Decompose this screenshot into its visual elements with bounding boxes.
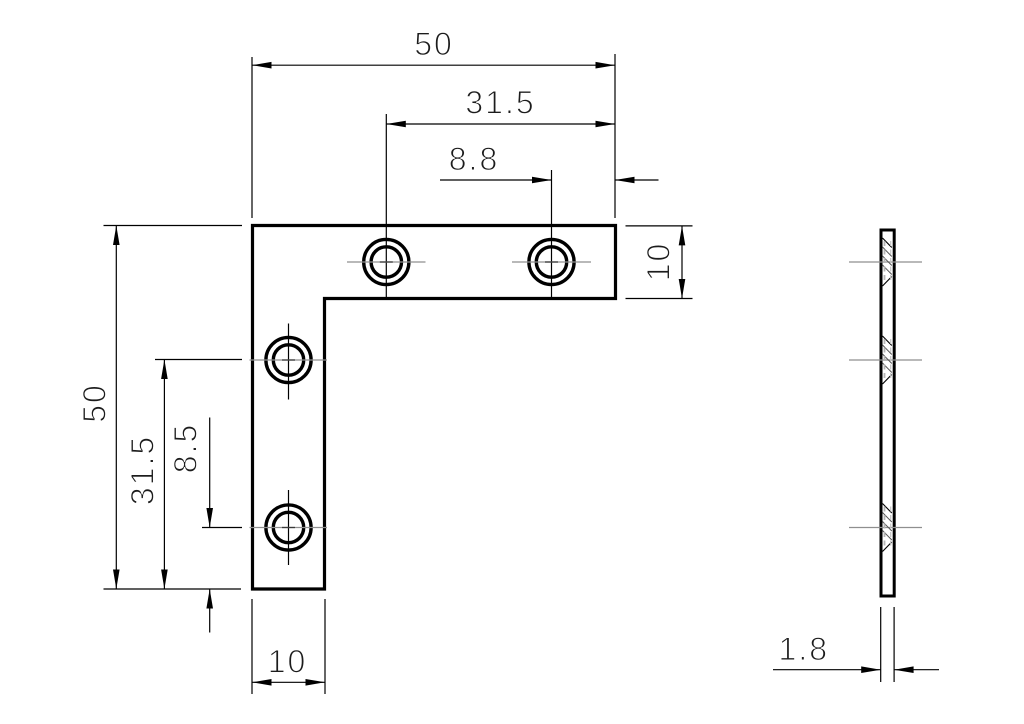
dimension 1.8: text label	[779, 631, 829, 667]
dimension 8.5: arrowhead pointing up at plate bottom	[206, 589, 213, 609]
dimension 1.8: dimension line left segment	[773, 669, 881, 671]
dimension 10 bottom: extension line right	[324, 599, 326, 694]
side view hidden hole edges at H1 (dashed)	[885, 241, 891, 283]
side view plate outline	[881, 230, 894, 596]
dimension 10 right: bottom arrowhead	[679, 279, 686, 299]
svg-text:10: 10	[641, 242, 677, 282]
dimension 50 left: bottom arrowhead	[113, 570, 120, 590]
hole H2 outer circle	[529, 239, 574, 284]
dimension 8.8: dimension line right tail	[615, 179, 659, 181]
dimension 50 top: text label	[414, 26, 454, 62]
hole H3 outer circle	[266, 337, 311, 382]
dimension 31.5 left: dimension line	[163, 360, 165, 590]
dimension 50 top: dimension line	[252, 64, 615, 66]
svg-text:31.5: 31.5	[125, 435, 161, 505]
dimension 50 top: right arrowhead	[596, 62, 616, 69]
hole H1 center mark dash	[380, 261, 393, 263]
hole H2 center mark dash	[545, 261, 558, 263]
dimension 50 left: dimension line	[115, 226, 117, 590]
dimension 31.5 left: bottom arrowhead	[161, 570, 168, 590]
dimension 31.5 left: text label (rotated)	[125, 435, 161, 505]
side view broken-out section at hole H3: boundary and hatch	[883, 336, 892, 384]
dimension 10 bottom: right arrowhead	[306, 679, 326, 686]
dimension 50 left: top arrowhead	[113, 226, 120, 246]
svg-text:8.5: 8.5	[168, 423, 204, 473]
dimension 50 left: extension line bottom (shared)	[104, 588, 242, 590]
dimension 50 top: left arrowhead	[252, 62, 272, 69]
dimension 10 right: top arrowhead	[679, 226, 686, 246]
hole H3 horizontal centerline	[250, 359, 328, 361]
dimension 10 bottom: text label	[268, 643, 308, 679]
hole H1 inner circle	[371, 247, 401, 277]
side view broken-out section at hole H4: boundary and hatch	[883, 504, 892, 552]
svg-text:10: 10	[268, 643, 308, 679]
dimension 8.8: arrowhead pointing left at right edge extension	[615, 177, 635, 184]
hole H2 vertical centerline / extension line	[551, 170, 553, 297]
dimension 1.8: extension line left	[880, 607, 882, 682]
dimension 1.8: dimension line right tail	[894, 669, 939, 671]
dimension 50 top: extension line left	[251, 57, 253, 218]
dimension 8.5: dimension line lower tail	[209, 589, 211, 633]
dimension 31.5 top: text label	[465, 85, 535, 121]
dimension 8.5: dimension line upper segment	[209, 418, 211, 528]
dimension 8.8: text label	[449, 141, 499, 177]
hole H3 vertical centerline	[288, 324, 290, 400]
side view hidden hole edges at H3 (dashed)	[885, 339, 891, 381]
hole H1 outer circle	[364, 239, 409, 284]
side view hidden hole edges at H4 (dashed)	[885, 507, 891, 549]
dimension 50 left: extension line top	[104, 225, 243, 227]
dimension 31.5 left: extension line at hole H3	[155, 359, 242, 361]
dimension 50 left: text label (rotated)	[77, 383, 113, 423]
hole H4 horizontal centerline	[250, 527, 328, 529]
dimension 10 right: dimension line	[681, 226, 683, 299]
dimension 8.5: text label (rotated)	[168, 423, 204, 473]
svg-text:50: 50	[77, 383, 113, 423]
side view centerline at hole H1 level	[849, 261, 922, 263]
svg-text:8.8: 8.8	[449, 141, 499, 177]
dimension 8.8: dimension line left segment	[440, 179, 552, 181]
hole H2 horizontal centerline	[512, 261, 591, 263]
svg-text:31.5: 31.5	[465, 85, 535, 121]
dimension 10 bottom: extension line left	[251, 599, 253, 694]
plate outline (L-shaped corner bracket, front view)	[253, 226, 616, 590]
dimension 10 bottom: left arrowhead	[252, 679, 272, 686]
dimension 31.5 left: top arrowhead	[161, 360, 168, 380]
dimension 31.5 top: dimension line	[386, 123, 615, 125]
hole H1 horizontal centerline	[347, 261, 426, 263]
hole H4 vertical centerline	[288, 490, 290, 565]
dimension 10 bottom: dimension line	[252, 681, 325, 683]
hole H3 inner circle	[273, 345, 303, 375]
dimension 10 right: text label (rotated)	[641, 242, 677, 282]
side view broken-out section at hole H1: boundary and hatch	[883, 238, 892, 286]
dimension 1.8: arrowhead pointing left	[894, 666, 914, 673]
svg-text:50: 50	[414, 26, 454, 62]
dimension 8.5: arrowhead pointing down at hole H4	[206, 508, 213, 528]
hole H4 inner circle	[273, 512, 303, 542]
side view centerline at hole H4 level	[849, 527, 922, 529]
dimension 1.8: arrowhead pointing right	[861, 666, 881, 673]
dimension 10 right: extension line bottom	[626, 298, 693, 300]
dimension 8.5: extension line at hole H4	[202, 527, 242, 529]
dimension 1.8: extension line right	[893, 607, 895, 682]
hole H4 center mark dash	[282, 527, 295, 529]
hole H4 outer circle	[266, 505, 311, 550]
dimension 31.5 top: left arrowhead	[386, 121, 406, 128]
dimension 10 right: extension line top	[626, 225, 693, 227]
side view centerline at hole H3 level	[849, 359, 922, 361]
hole H1 vertical centerline / extension line	[385, 114, 387, 297]
svg-text:1.8: 1.8	[779, 631, 829, 667]
dimension 8.8: arrowhead pointing right at hole H2 extension	[532, 177, 552, 184]
hole H2 inner circle	[536, 247, 566, 277]
hole H3 center mark dash	[282, 359, 295, 361]
dimension 50 top: extension line right (shared with 31.5)	[614, 54, 616, 218]
dimension 31.5 top: right arrowhead	[596, 121, 616, 128]
